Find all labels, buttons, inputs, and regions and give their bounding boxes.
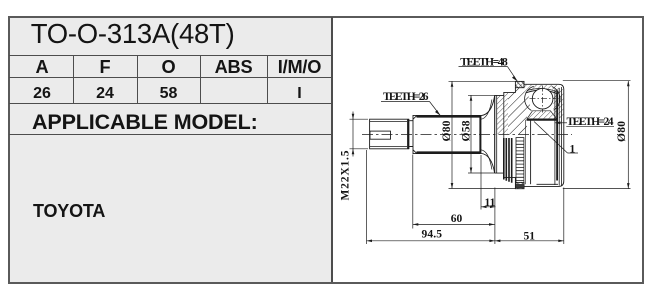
cage arc right of ball (552, 87, 560, 111)
dia80 right extension lines (563, 81, 631, 189)
ABS ring bottom (section) (515, 182, 524, 188)
dia58 extension lines (468, 95, 495, 173)
dia58 dim line (470, 95, 472, 173)
dim51 arrows (495, 240, 501, 243)
dim94.5 extension left (366, 150, 368, 244)
dim94.5 line (367, 240, 495, 242)
cage arc left of ball (525, 86, 534, 110)
svg-text:TEETH=26: TEETH=26 (383, 91, 429, 103)
brand TOYOTA (33, 202, 105, 220)
M22 dimension line (352, 112, 354, 157)
svg-text:Ø80: Ø80 (616, 121, 628, 142)
thread minor lines (370, 121, 407, 146)
hatch back wall fine (top half) (497, 92, 508, 134)
bell bottom chamfer (537, 183, 559, 185)
ball centerline horizontal (530, 98, 557, 100)
svg-text:M22X1.5: M22X1.5 (340, 150, 352, 200)
rim bore lines top (555, 87, 562, 135)
table row lines (9, 55, 332, 56)
dia58 arrows (470, 95, 473, 101)
inner race wedge hatched (527, 111, 557, 119)
dim60 extension left (412, 155, 414, 229)
svg-text:51: 51 (524, 230, 536, 242)
teeth26 arrow (435, 110, 440, 116)
svg-text:TEETH=24: TEETH=24 (567, 116, 614, 128)
svg-text:60: 60 (451, 213, 463, 225)
ball (532, 88, 553, 109)
teeth26 underline (381, 101, 430, 103)
shaft end face (thick) (479, 116, 481, 153)
table column lines (73, 56, 74, 103)
dia80 right dim line (627, 81, 629, 189)
bell flare bottom inner (481, 150, 492, 170)
dia80 left dim line (451, 81, 453, 188)
dim51 extension right (563, 188, 565, 245)
svg-text:Ø80: Ø80 (441, 120, 453, 141)
dim60/94.5/51 shared extension (494, 188, 496, 245)
hatch band above ball track (524, 85, 557, 93)
M22 arrows (outside) (352, 114, 355, 120)
spline major thick edges (417, 116, 481, 118)
stub end face (thick) (407, 119, 409, 149)
ABS ring teeth column (bottom view) (516, 138, 524, 188)
table divider to drawing (331, 17, 333, 282)
dim51 line (495, 240, 564, 242)
dia80 right arrows (627, 81, 630, 87)
value row 26 24 58 - I (10, 86, 75, 102)
svg-text:11: 11 (485, 197, 496, 209)
arrowheads (352, 76, 630, 242)
dim94.5 arrows (367, 240, 373, 243)
bell back face (494, 95, 496, 173)
svg-text:Ø58: Ø58 (460, 120, 472, 141)
bell flare bottom (481, 153, 495, 173)
inner race side lines (525, 120, 527, 185)
dim60 arrows (413, 223, 419, 226)
dim60 line (413, 223, 495, 225)
M22 extension lines (350, 119, 369, 149)
svg-text:94.5: 94.5 (422, 228, 443, 240)
bell flare top inner (481, 100, 492, 120)
header row A F O ABS I/M/O (10, 58, 75, 76)
teeth26 leader (430, 102, 441, 116)
thread stub M22 (370, 119, 409, 149)
rim bore thick line (556, 91, 558, 181)
hatch wedge wide (top half) (508, 88, 532, 134)
svg-text:TEETH=48: TEETH=48 (460, 56, 508, 68)
bell flare top (481, 96, 495, 116)
dim11 line (481, 206, 496, 208)
drawing labels (340, 56, 629, 242)
bell outer profile bottom (495, 173, 516, 182)
teeth48 leader (508, 67, 518, 82)
spline chamfer (413, 116, 417, 154)
teeth48 arrow (512, 76, 517, 82)
spline shaft outline (413, 115, 481, 153)
bell body outline (524, 84, 564, 186)
hatch rim right (top half) (554, 86, 564, 119)
teeth24 arrow (555, 121, 561, 124)
teeth24 underline (566, 125, 614, 127)
ABS ring top (section) (515, 81, 524, 188)
teeth24 leader (555, 122, 567, 124)
boot groove lines (497, 95, 504, 173)
centerline (362, 133, 572, 135)
svg-text:1: 1 (570, 143, 576, 155)
label1 leader (534, 122, 578, 154)
inner race spline bore (thick) (527, 119, 558, 121)
dimension lines (350, 67, 631, 244)
teeth48 underline (459, 66, 508, 68)
bell outer profile top (495, 88, 516, 95)
thread slot (370, 131, 391, 139)
ball track arc (526, 90, 558, 94)
dim11 arrows (481, 206, 487, 209)
ball centerline vertical (542, 86, 544, 113)
dim11 extension left (480, 155, 482, 210)
rim bore lines bottom (555, 135, 562, 186)
neck section (409, 121, 413, 147)
table gray background (10, 18, 331, 282)
dia80 left arrows (451, 81, 454, 87)
outer race track second line (527, 88, 556, 91)
dia80 left extension lines (449, 81, 517, 188)
title TO-O-313A(48T) (31, 20, 235, 48)
applicable model label (32, 112, 258, 134)
boot groove ribs bottom view (504, 138, 512, 183)
